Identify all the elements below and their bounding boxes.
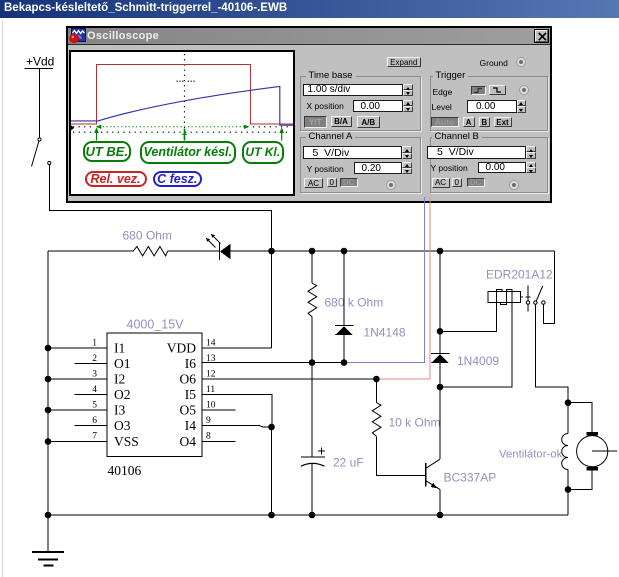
red trace [71,64,293,123]
trigger [433,87,453,97]
wire pin8 stub [202,441,236,443]
wire relay common to motor node [535,304,568,403]
node node rail-1N4009 [437,248,444,255]
svg-text:I5: I5 [185,387,196,402]
LED D1 [206,234,231,260]
node node pin9-pin11 [268,424,275,431]
wire LED to +V rail [231,250,555,252]
wire pin7 [48,441,107,443]
wire pin13 [202,362,344,364]
svg-text:O1: O1 [114,356,131,371]
wire coil pin right [440,291,512,387]
relay contact NC stub [526,286,531,312]
diode 1N4009 [431,354,500,369]
node node coil-diode bottom [437,384,444,391]
wire 1N4009 top [439,251,441,354]
probe wire channel B blue [344,200,425,363]
svg-text:4000_15V: 4000_15V [127,318,185,332]
svg-text:14: 14 [206,339,216,349]
wire pin2 stub [75,363,108,365]
wire winding bottom [567,470,569,490]
node node pin13-680k [309,359,316,366]
wire 680k bottom [311,317,313,363]
svg-text:2: 2 [92,354,97,364]
relay K1 EDR201A12 coil [486,268,553,305]
svg-text:10 k Ohm: 10 k Ohm [389,416,441,430]
time base [303,84,404,96]
wire 1N4148 top [343,251,345,326]
svg-text:11: 11 [206,385,215,395]
wire pin9 node to ground rail [271,427,273,515]
node node motor top [565,399,572,406]
op-amp / IC U1 40106 box [92,318,216,479]
wire pin10 stub [202,409,236,411]
svg-text:I2: I2 [114,372,125,387]
resistor 680 k Ohm [308,283,383,317]
wire +V rail left [48,250,133,252]
wire 10k top [375,379,377,403]
ground symbol [32,515,64,566]
power +Vdd [25,55,55,69]
wire pin3 [48,378,107,380]
relay contact blade [534,286,543,305]
svg-text:680 Ohm: 680 Ohm [123,229,172,243]
wire 10k to base [376,437,425,476]
channel B [427,146,526,159]
svg-text:BC337AP: BC337AP [444,471,497,485]
node node ground-left [45,512,52,519]
wire pin12 [202,378,376,380]
capacitor C1 22uF wire top [311,363,313,458]
svg-text:680 k Ohm: 680 k Ohm [325,296,384,310]
svg-text:O5: O5 [180,403,197,418]
inductor fan winding [567,403,569,434]
node node pin5 [45,407,52,414]
wire pin6 stub [75,425,108,427]
wire pin1 [48,347,107,349]
svg-text:O2: O2 [114,387,131,402]
svg-text:I6: I6 [185,356,196,371]
node node ground-cap [309,512,316,519]
relay contact NO terminal [542,301,545,304]
svg-text:I1: I1 [114,341,125,356]
svg-text:1N4148: 1N4148 [364,326,406,340]
svg-text:10: 10 [206,401,216,411]
scope labels [83,141,131,163]
node node pin13-1N4148 [341,359,348,366]
wire to ground rail right [567,490,569,516]
wire NO contact to +V rail [543,251,554,323]
svg-text:40106: 40106 [108,463,142,478]
scope display [69,50,295,196]
svg-text:7: 7 [92,432,97,442]
svg-text:VDD: VDD [167,341,196,356]
svg-text:I3: I3 [114,403,125,418]
resistor 10 k Ohm [372,403,440,437]
svg-text:+Vdd: +Vdd [26,55,54,69]
wire switch to rail corner [49,165,271,349]
svg-text:I4: I4 [185,418,196,433]
wire motor bottom [568,470,592,489]
wire left ground rail [47,251,49,515]
svg-text:3: 3 [92,370,97,380]
svg-text:6: 6 [92,416,97,426]
transistor Q1 BC337AP [426,459,496,489]
motor M1 Ventilator [499,432,617,470]
wire resistor to LED [168,250,220,252]
diode 1N4148 [335,326,406,340]
svg-text:12: 12 [206,370,216,380]
wire emitter [439,489,441,515]
wire 1N4009 bottom [439,363,441,387]
wire 1N4148 bottom [343,335,345,363]
svg-text:1: 1 [92,339,97,349]
svg-text:9: 9 [206,416,211,426]
node node pin12-10k [373,376,380,383]
blue trace [71,86,293,125]
svg-text:Ventilátor-ok.: Ventilátor-ok. [499,449,565,461]
channel A [303,146,403,159]
svg-text:O6: O6 [180,372,197,387]
svg-text:EDR201A12: EDR201A12 [486,268,553,282]
node node pin1 [45,345,52,352]
svg-text:4: 4 [92,385,97,395]
node node ground-emitter [437,512,444,519]
node node ground-pin9 [268,512,275,519]
group boxes [300,76,422,132]
node node pin3 [45,376,52,383]
svg-text:5: 5 [92,401,97,411]
probe wire channel A red [376,200,430,379]
svg-text:O3: O3 [114,418,131,433]
svg-text:VSS: VSS [114,434,139,449]
green delay arrow [94,124,284,140]
node node coil-diode top [437,328,444,335]
wire pin14 VDD [202,347,272,349]
wire 680k top [311,251,313,283]
switch S1 [32,138,51,167]
node node rail-switch [268,248,275,255]
node node rail-1N4148 [341,248,348,255]
capacitor C1 22 uF [301,447,364,469]
wire node to motor top [568,403,592,432]
sheet border [2,21,4,577]
node node motor bottom [565,486,572,493]
svg-text:O4: O4 [180,434,197,449]
wire collector [439,387,441,459]
svg-text:1N4009: 1N4009 [457,354,499,368]
probe wires over window border [420,197,436,203]
svg-text:8: 8 [206,432,211,442]
node node pin7 [45,438,52,445]
resistor 680 Ohm [123,229,172,256]
svg-text:22 uF: 22 uF [333,456,364,470]
expand + ground [387,57,422,68]
wire +Vdd to switch [39,68,41,138]
wire cap bottom [311,463,313,515]
wire pin9 [202,426,272,428]
wire pin4 stub [75,394,108,396]
wire pin5 [48,409,107,411]
wire coil pin left [440,302,496,331]
node node rail-680k [309,248,316,255]
wire pin11 [202,395,272,427]
wire ground rail [48,514,568,516]
